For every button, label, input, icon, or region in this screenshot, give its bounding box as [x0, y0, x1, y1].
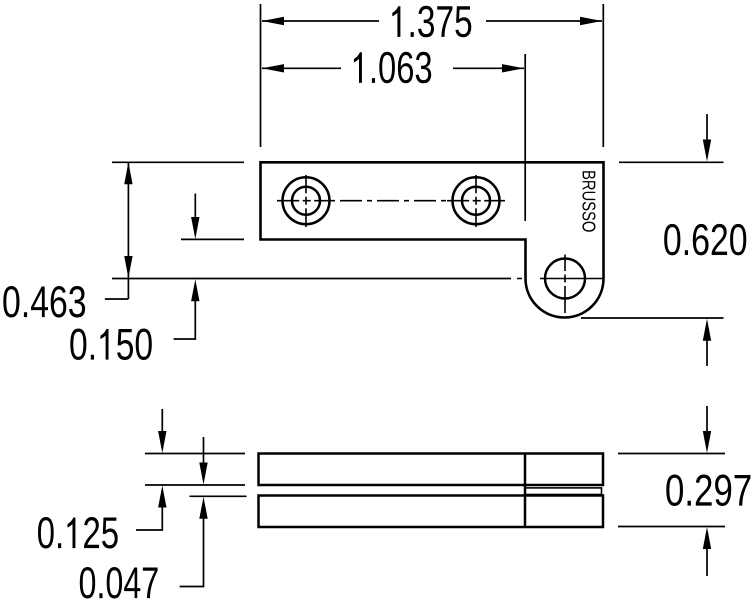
dimension 0.047 bottom arrow line and leader — [180, 518, 204, 587]
dimension 0.620 top arrowhead — [703, 140, 711, 162]
screw hole right vertical centerline — [475, 175, 477, 227]
dimension 0.620 bottom arrow line — [706, 340, 708, 366]
dimension 0.150 top arrow line — [194, 194, 196, 219]
dimension 1.375 right arrowhead — [580, 17, 602, 25]
dimension 0.150 extension line — [181, 238, 244, 240]
screw hole left inner circle — [292, 187, 320, 215]
screw hole right horizontal crosshair — [447, 200, 505, 202]
pivot axis extension line (0.463/0.150 bottom reference) — [112, 278, 511, 280]
dimension 0.620 top extension line — [619, 161, 724, 163]
dimension 0.463 bottom arrowhead — [124, 256, 132, 278]
dimension 0.620 bottom arrowhead — [703, 319, 711, 341]
dimension text 0.620 — [3, 286, 85, 318]
dimension 0.150 top arrowhead — [191, 217, 199, 239]
dimension 1.063 left arrowhead — [262, 64, 284, 72]
pivot hole circle — [545, 259, 585, 299]
side view: knuckle divider line — [524, 454, 527, 528]
dimension text 0.297 — [582, 171, 595, 232]
top view: hinge leaf L-shaped outline — [261, 162, 604, 317]
dimension 1.063 line left segment — [262, 67, 341, 69]
dimension 1.375 left extension line — [260, 4, 262, 147]
dimension 1.375 right extension line — [602, 4, 604, 147]
dimension 0.125 bottom arrowhead — [158, 486, 166, 508]
dimension 0.047 extension line — [190, 495, 247, 497]
dimension 1.375 line left segment — [262, 20, 379, 22]
dimension 0.047 bottom arrowhead — [199, 497, 207, 519]
dimension 1.375 left arrowhead — [262, 17, 284, 25]
side view: lower leaf rectangle — [259, 496, 604, 528]
dimension text 1.375 — [354, 52, 431, 84]
dimension 0.297 top arrowhead — [703, 431, 711, 453]
dimension 0.463 vertical line — [127, 162, 129, 299]
screw hole right inner circle — [462, 187, 490, 215]
dimension 0.620 bottom extension line — [581, 317, 724, 319]
dimension 1.375 line right segment — [486, 20, 602, 22]
dimension 1.063 right arrowhead — [502, 64, 524, 72]
dimension 0.463 leader — [105, 298, 128, 300]
BRUSSO logo text (rotated) — [392, 6, 471, 38]
dimension 0.125 bottom extension line — [145, 484, 245, 486]
dimension 0.297 top extension line — [618, 453, 725, 455]
dimension 1.063 right extension line — [524, 54, 526, 221]
dimension 0.297 bottom arrow line — [706, 548, 708, 576]
screw hole left outer circle — [283, 177, 330, 224]
dimension 0.297 bottom extension line — [618, 526, 725, 528]
dimension text 0.047 — [666, 475, 750, 507]
dimension 0.297 bottom arrowhead — [703, 527, 711, 549]
dimension text 0.463 — [70, 329, 152, 361]
pivot vertical centerline — [564, 255, 566, 314]
side view: washer rectangle — [525, 488, 602, 495]
dimension text 1.063 — [664, 224, 746, 256]
side view: upper leaf rectangle — [259, 454, 604, 486]
dimension 0.047 top arrow line — [203, 437, 205, 463]
dimension 0.150 bottom arrowhead — [191, 279, 199, 301]
dimension text 0.125 — [80, 567, 158, 599]
dimension 0.463 top extension line — [112, 161, 244, 163]
dimension 0.463 top arrowhead — [124, 162, 132, 184]
dimension 1.063 line right segment — [453, 67, 524, 69]
dimension 0.297 top arrow line — [706, 406, 708, 432]
screw hole right outer circle — [453, 177, 500, 224]
dimension 0.125 top extension line — [145, 453, 245, 455]
dimension 0.125 top arrow line — [161, 409, 163, 433]
dimension text 0.150 — [38, 517, 118, 549]
dimension 0.047 top arrowhead — [199, 463, 207, 485]
screw hole left vertical centerline — [305, 175, 307, 227]
dimension 0.150 bottom arrow line and leader — [174, 300, 196, 339]
pivot horizontal centerline — [517, 278, 604, 280]
screw hole left horizontal crosshair — [277, 200, 335, 202]
dimension 0.125 bottom arrow line and leader — [136, 506, 162, 530]
dimension 0.620 top arrow line — [706, 114, 708, 140]
dimension 0.125 top arrowhead — [158, 431, 166, 453]
dash-dot centerline between screw holes — [340, 200, 446, 202]
